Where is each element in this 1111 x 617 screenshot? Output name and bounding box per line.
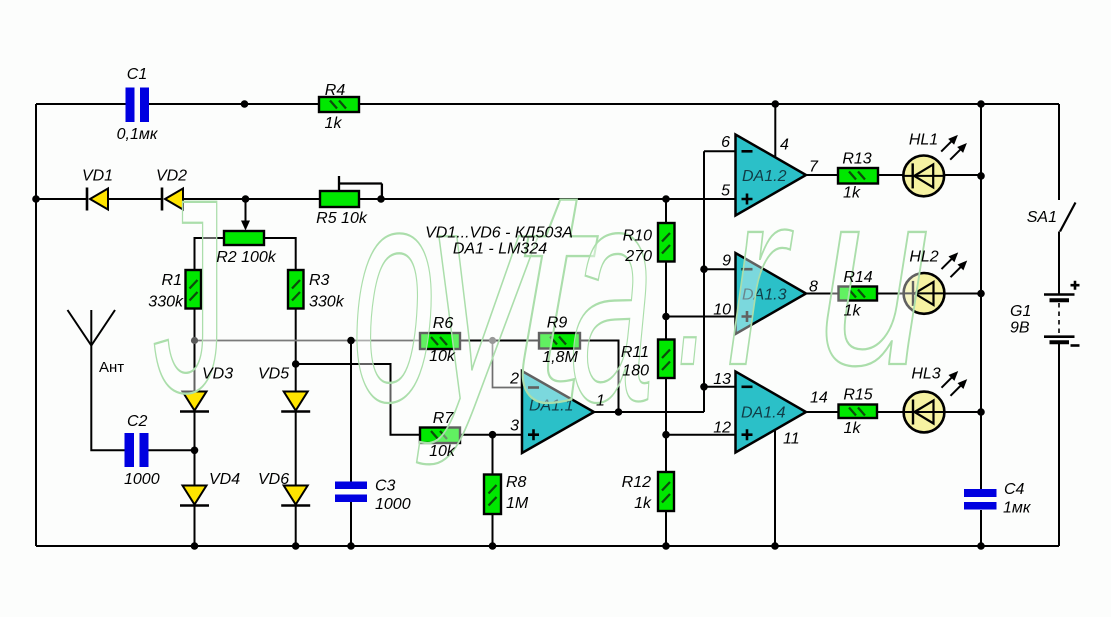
wire R9 right down to output node xyxy=(580,341,619,413)
wire R2 wiper stem xyxy=(245,199,247,222)
svg-text:5: 5 xyxy=(721,183,730,200)
svg-text:HL2: HL2 xyxy=(909,249,938,266)
junction col2 pin9 xyxy=(700,265,708,273)
svg-text:HL3: HL3 xyxy=(911,366,940,383)
wire divider col top to R10 xyxy=(665,199,667,223)
junction bottom rail R8 xyxy=(489,542,497,550)
svg-text:7: 7 xyxy=(809,159,819,176)
wire C3 column upper xyxy=(350,341,352,482)
svg-text:R10: R10 xyxy=(623,228,652,245)
junction row340 C3 top xyxy=(347,337,355,345)
wire divider to DA1.4 pin12 xyxy=(666,434,736,436)
junction bottom rail R12 xyxy=(662,542,670,550)
svg-text:14: 14 xyxy=(810,390,828,407)
svg-text:R9: R9 xyxy=(547,315,568,332)
svg-text:1M: 1M xyxy=(506,495,529,512)
svg-text:C3: C3 xyxy=(375,478,396,495)
LED HL2 xyxy=(904,252,968,313)
wire DA1.1 output row xyxy=(594,411,704,413)
wire C2 right plate to diode column xyxy=(149,449,195,451)
junction divider pin12 xyxy=(662,431,670,439)
diode VD1 xyxy=(87,188,108,211)
junction HL1 LED rail xyxy=(977,172,985,180)
wire R6 to R9 xyxy=(460,340,539,342)
wire row199 left rail to VD1 xyxy=(36,198,87,200)
junction DA1.1 output R9 xyxy=(615,408,623,416)
wire col2 stub to DA1.3 pin9 xyxy=(704,268,736,270)
wire LED rail upper xyxy=(980,104,982,489)
wire pin3 node down to R8 xyxy=(492,435,494,475)
wire C3 column lower xyxy=(350,502,352,546)
junction HL3 LED rail xyxy=(977,408,985,416)
wire LED rail lower xyxy=(980,510,982,546)
wire right column upper xyxy=(1058,104,1060,200)
diode VD5 xyxy=(281,392,310,412)
wire R2 right end to R3 xyxy=(264,238,296,270)
svg-text:Ант: Ант xyxy=(99,359,124,376)
resistor R15 xyxy=(839,405,878,419)
svg-text:270: 270 xyxy=(624,248,652,265)
diode VD2 xyxy=(162,188,183,211)
svg-text:330k: 330k xyxy=(309,294,345,311)
junction top rail C1 node xyxy=(241,100,249,108)
op-amp DA1.1 xyxy=(522,371,594,453)
svg-text:VD1: VD1 xyxy=(82,168,113,185)
svg-text:1k: 1k xyxy=(634,495,652,512)
wire R1 bottom to VD3 xyxy=(194,309,196,392)
svg-text:r: r xyxy=(727,138,793,417)
junction pin3 R8 node xyxy=(489,431,497,439)
resistor R8 xyxy=(484,475,501,515)
svg-text:R8: R8 xyxy=(506,474,527,491)
junction bottom rail VD6 xyxy=(292,542,300,550)
op-amp DA1.2 xyxy=(736,135,807,216)
junction C2 VD3 VD4 node xyxy=(191,447,199,455)
svg-text:C4: C4 xyxy=(1004,481,1025,498)
resistor R9 xyxy=(539,333,580,349)
svg-text:1000: 1000 xyxy=(124,471,160,488)
junction bottom rail VD4 xyxy=(191,542,199,550)
junction row340 R1 bottom xyxy=(191,337,198,344)
resistor R6 xyxy=(420,333,460,349)
battery G1 xyxy=(1044,281,1080,346)
svg-text:1k: 1k xyxy=(325,115,343,132)
wire left rail xyxy=(35,104,37,546)
svg-text:R2 100k: R2 100k xyxy=(216,249,277,266)
svg-text:1000: 1000 xyxy=(375,496,411,513)
wire col2 stub to DA1.4 pin13 xyxy=(704,386,736,388)
LED HL3 xyxy=(904,371,968,432)
diode VD6 xyxy=(281,486,310,506)
svg-text:R12: R12 xyxy=(622,474,651,491)
resistor R4 xyxy=(319,97,359,112)
capacitor C3 xyxy=(335,482,367,503)
svg-text:SA1: SA1 xyxy=(1027,209,1057,226)
svg-text:R3: R3 xyxy=(309,272,330,289)
junction bottom rail C3 xyxy=(347,542,355,550)
wire R7 to DA1.1 pin3 xyxy=(460,434,522,436)
diode VD3 xyxy=(180,392,209,412)
resistor R7 xyxy=(420,428,460,444)
svg-text:VD1...VD6 - КД503А: VD1...VD6 - КД503А xyxy=(425,225,573,242)
op-amp DA1.3 xyxy=(736,253,807,334)
svg-text:VD5: VD5 xyxy=(258,366,289,383)
wire DA1.2 output to HL1 rail xyxy=(806,174,981,176)
svg-text:3: 3 xyxy=(510,418,519,435)
junction row199 R5 tap xyxy=(377,195,385,203)
svg-text:10k: 10k xyxy=(429,443,456,460)
svg-text:4: 4 xyxy=(780,137,789,154)
svg-text:R15: R15 xyxy=(843,387,872,404)
svg-text:1мк: 1мк xyxy=(1003,500,1032,517)
junction row199 divider top xyxy=(662,195,670,203)
switch SA1 blade xyxy=(1060,203,1076,232)
wire DA1.3 output to HL2 rail xyxy=(806,293,981,295)
svg-text:G1: G1 xyxy=(1010,303,1031,320)
capacitor C1 xyxy=(126,88,150,123)
svg-text:12: 12 xyxy=(713,420,731,437)
wire row199 VD2 to R5 xyxy=(183,198,320,200)
wire right column middle to battery xyxy=(1058,232,1060,295)
resistor R12 xyxy=(658,472,674,511)
junction bottom rail pin11 xyxy=(771,542,779,550)
svg-text:HL1: HL1 xyxy=(909,132,938,149)
svg-text:330k: 330k xyxy=(148,294,184,311)
wire VD5 to VD6 column xyxy=(295,412,297,486)
svg-text:R5 10k: R5 10k xyxy=(316,210,368,227)
svg-text:VD6: VD6 xyxy=(258,471,289,488)
svg-text:9: 9 xyxy=(722,253,731,270)
wire right column battery to bottom rail xyxy=(1058,342,1060,547)
wire R12 to bottom rail xyxy=(665,511,667,546)
svg-text:C2: C2 xyxy=(127,413,148,430)
junction left rail row199 xyxy=(32,195,40,203)
svg-text:10k: 10k xyxy=(429,348,456,365)
resistor R1 xyxy=(186,270,202,309)
svg-text:R4: R4 xyxy=(325,82,346,99)
wire R10 to R11 xyxy=(665,262,667,340)
svg-text:8: 8 xyxy=(809,279,818,296)
wire R8 bottom to rail xyxy=(492,514,494,546)
wire DA1.4 pin11 to bottom rail xyxy=(774,412,776,546)
svg-text:VD2: VD2 xyxy=(156,168,187,185)
wire VD4 to bottom rail xyxy=(194,506,196,546)
resistor R10 xyxy=(658,223,675,262)
svg-text:R14: R14 xyxy=(843,269,872,286)
resistor R5 trimmer xyxy=(320,191,359,207)
junction divider pin10 xyxy=(662,313,670,321)
wire R3 bottom to VD5 xyxy=(295,309,297,392)
svg-text:1,8M: 1,8M xyxy=(542,349,578,366)
svg-text:R13: R13 xyxy=(842,151,871,168)
capacitor C2 xyxy=(125,433,149,467)
resistor R11 xyxy=(658,340,675,379)
wire row199 R5 to DA1.2 pin5 xyxy=(359,198,736,200)
svg-text:1: 1 xyxy=(596,393,605,410)
junction row340 R6 R9 node xyxy=(489,337,496,344)
svg-text:R6: R6 xyxy=(433,315,454,332)
R2 wiper arrowhead xyxy=(241,221,250,231)
svg-text:o: o xyxy=(352,119,436,466)
wire branch to DA1.1 pin2 xyxy=(493,341,523,388)
LED HL1 xyxy=(903,135,967,196)
wire row364 VD5 node to R7 xyxy=(296,364,420,435)
junction top rail LED rail xyxy=(977,100,985,108)
svg-text:VD4: VD4 xyxy=(209,471,240,488)
wire DA1.2 pin4 to top rail xyxy=(774,104,776,160)
wire VD6 to bottom rail xyxy=(295,506,297,546)
svg-text:.: . xyxy=(676,138,712,417)
wire R2 left end to R1 xyxy=(195,238,225,270)
antenna left arm xyxy=(68,310,92,346)
wire top rail C1 to R4 xyxy=(149,103,320,105)
svg-text:10: 10 xyxy=(713,302,731,319)
wire R11 to R12 xyxy=(665,378,667,472)
wire DA1.4 output to HL3 rail xyxy=(806,411,981,413)
svg-text:a: a xyxy=(570,119,654,466)
svg-text:1k: 1k xyxy=(844,303,862,320)
junction row364 VD5 node xyxy=(292,360,300,368)
svg-text:9В: 9В xyxy=(1010,320,1030,337)
diode VD4 xyxy=(180,486,209,506)
resistor R13 xyxy=(838,168,878,184)
op-amp DA1.4 xyxy=(736,372,807,453)
svg-text:R7: R7 xyxy=(433,410,455,427)
svg-text:1k: 1k xyxy=(844,420,862,437)
resistor R3 xyxy=(288,270,304,309)
WATERMARK xyxy=(152,119,930,468)
wire VD3 to VD4 column xyxy=(194,412,196,486)
svg-text:1k: 1k xyxy=(843,185,861,202)
wire bottom rail xyxy=(36,545,1059,547)
wire feedback column col2 xyxy=(703,151,705,412)
svg-text:VD3: VD3 xyxy=(202,366,233,383)
junction top rail DA1.2 pin4 xyxy=(772,100,780,108)
wire row340 to R6 xyxy=(195,340,421,342)
svg-text:0,1мк: 0,1мк xyxy=(117,126,159,143)
svg-text:6: 6 xyxy=(721,134,730,151)
junction bottom rail C4 xyxy=(977,542,985,550)
capacitor C4 xyxy=(964,489,997,510)
resistor R14 xyxy=(839,287,878,301)
svg-text:R1: R1 xyxy=(162,272,182,289)
svg-text:C1: C1 xyxy=(127,66,147,83)
wire col2 stub to DA1.2 pin6 xyxy=(704,150,736,152)
svg-text:180: 180 xyxy=(622,363,649,380)
wire top rail R4 to right column xyxy=(359,103,1059,105)
svg-text:DA1 - LM324: DA1 - LM324 xyxy=(453,241,547,258)
svg-text:2: 2 xyxy=(509,371,519,388)
wire R5 wiper tap xyxy=(339,176,382,199)
potentiometer R2 xyxy=(224,231,264,245)
junction HL2 LED rail xyxy=(977,290,985,298)
svg-text:13: 13 xyxy=(713,371,731,388)
wire divider to DA1.3 pin10 xyxy=(666,316,736,318)
junction row199 R2 wiper xyxy=(242,195,250,203)
wire top rail left of C1 xyxy=(36,103,126,105)
antenna right arm xyxy=(91,310,115,346)
svg-text:R11: R11 xyxy=(621,344,649,361)
junction col2 pin13 xyxy=(700,383,708,391)
wire row199 VD1 to VD2 xyxy=(108,198,162,200)
svg-text:11: 11 xyxy=(783,431,800,448)
wire antenna lead xyxy=(91,310,124,450)
